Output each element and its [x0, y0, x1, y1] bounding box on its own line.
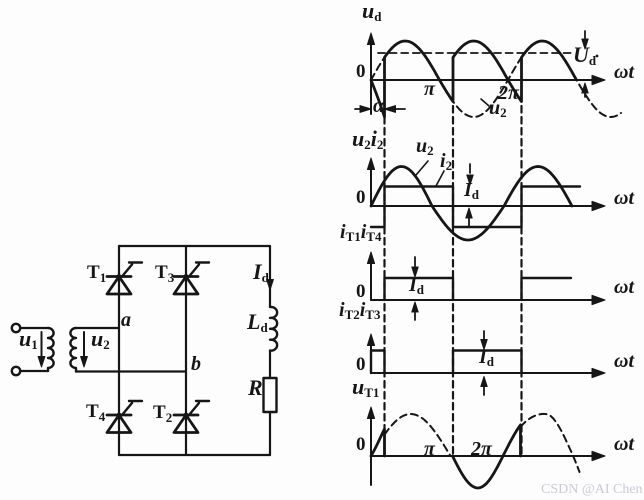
plot1 y axis: [370, 44, 372, 114]
dashed timing line at alpha: [383, 106, 385, 456]
wire left bridge leg: [118, 246, 120, 455]
wire secondary bottom to node b: [76, 370, 186, 372]
Id dimension arrows plot3: [414, 257, 416, 266]
alpha dimension arrows: [355, 108, 364, 110]
plot1 u2 dashed sine: [371, 41, 621, 117]
thyristor T3: [174, 263, 209, 295]
svg-text:α: α: [373, 95, 385, 117]
transformer primary terminal bottom: [12, 367, 20, 375]
transformer secondary winding: [70, 328, 76, 372]
svg-text:ωt: ωt: [614, 276, 635, 298]
plot4 x axis: [371, 372, 601, 374]
svg-text:ωt: ωt: [614, 433, 635, 455]
plot3 iT1iT4 pulse 2: [522, 278, 572, 300]
plot2 y axis: [370, 170, 372, 206]
arrow u2 direction: [83, 332, 85, 357]
svg-text:0: 0: [356, 354, 366, 375]
Id dimension arrows plot4: [483, 331, 485, 339]
plot5 y axis: [370, 419, 372, 485]
plot2 i2 square wave: [371, 187, 580, 228]
plot4 y axis: [370, 346, 372, 373]
svg-text:π: π: [424, 438, 436, 460]
wire top rail: [119, 245, 270, 247]
plot5 uT1 solid initial rise and drop: [371, 429, 385, 456]
arrow Id load current: [267, 280, 274, 291]
svg-text:0: 0: [356, 434, 366, 455]
dashed timing line at pi+alpha: [452, 106, 454, 456]
label u2 on dashed curve: [481, 99, 489, 106]
plot5 uT1 solid rise to 2pi+alpha and drop: [503, 425, 521, 456]
svg-text:ωt: ωt: [614, 61, 635, 83]
plot4 iT2iT3 pulse A: [371, 351, 385, 374]
svg-text:0: 0: [356, 61, 366, 82]
plot5 dashed hump 1: [385, 414, 451, 456]
wire bottom rail: [119, 454, 270, 456]
svg-text:2π: 2π: [497, 82, 520, 104]
wire load rail top: [269, 246, 271, 307]
svg-text:b: b: [191, 353, 201, 375]
thyristor T4: [107, 401, 142, 433]
svg-text:π: π: [424, 78, 436, 100]
svg-text:CSDN @AI Chen: CSDN @AI Chen: [541, 482, 643, 497]
plot5 uT1 solid negative hump: [453, 456, 504, 488]
svg-text:2π: 2π: [470, 438, 493, 460]
svg-text:ωt: ωt: [614, 350, 635, 372]
plot1 Ud dashed average line: [378, 52, 574, 54]
inductor Ld: [270, 307, 277, 351]
plot2 x axis: [371, 205, 601, 207]
plot1 x axis: [371, 79, 601, 81]
wire load rail middle: [269, 351, 271, 379]
arrow u1 direction: [41, 332, 43, 357]
svg-text:a: a: [121, 309, 131, 331]
plot3 x axis: [371, 299, 601, 301]
plot2 u2 sine: [371, 167, 572, 241]
plot1 ud solid rectified curve: [371, 41, 577, 117]
plot4 iT2iT3 pulse B: [453, 351, 522, 374]
dashed timing line at 2pi+alpha: [520, 106, 522, 456]
label i2 with pointer: [436, 171, 444, 186]
svg-text:0: 0: [356, 187, 366, 208]
transformer primary terminal top: [12, 324, 20, 332]
wire primary bottom lead: [20, 370, 48, 372]
transformer primary winding: [48, 328, 54, 371]
thyristor T1: [107, 263, 142, 295]
thyristor T2: [174, 401, 209, 433]
wire right bridge leg: [185, 246, 187, 455]
wire load rail bottom: [269, 412, 271, 455]
resistor R: [264, 378, 277, 412]
svg-text:R: R: [247, 375, 263, 400]
plot3 y axis: [370, 264, 372, 300]
wire primary top lead: [20, 327, 48, 329]
Id dimension arrows plot2: [469, 164, 471, 173]
label u2 with pointer: [416, 161, 428, 175]
plot5 dashed hump 2: [521, 414, 580, 472]
wire secondary top to node a: [76, 327, 119, 329]
svg-text:ωt: ωt: [614, 187, 635, 209]
plot5 x axis: [371, 455, 601, 457]
plot3 iT1iT4 pulse 1: [385, 278, 454, 300]
